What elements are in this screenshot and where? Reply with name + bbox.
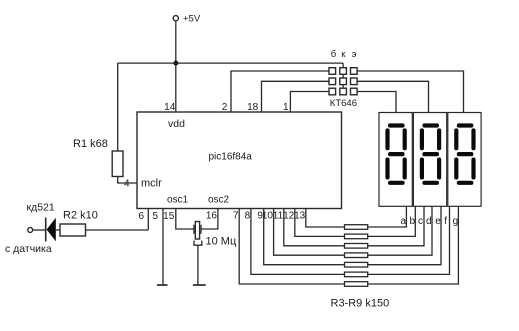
wire diode to R2 <box>56 229 60 231</box>
svg-text:КТ646: КТ646 <box>330 98 357 109</box>
wire terminal to diode <box>33 229 45 231</box>
svg-text:14: 14 <box>164 102 176 113</box>
svg-text:e: e <box>435 216 441 227</box>
svg-text:osc1: osc1 <box>167 195 189 206</box>
svg-text:10 Мц: 10 Мц <box>206 236 237 248</box>
resistor R3 <box>345 225 368 230</box>
resistor R6 <box>345 253 368 258</box>
transistor Q2 emitter pad <box>351 78 358 85</box>
display HG2 body <box>413 113 446 207</box>
transistor Q1 collector pad <box>340 68 347 75</box>
transistor Q3 base pad <box>329 88 336 95</box>
wire pin 13 to R3 <box>306 209 345 228</box>
wire pin 7 to R9 <box>239 209 344 285</box>
input terminal circle <box>28 228 33 233</box>
wire +5V horizontal rail <box>118 62 343 64</box>
resistor R9 <box>345 282 368 287</box>
wire +5V vertical to pin 14 <box>175 21 177 112</box>
transistor Q2 collector pad <box>340 78 347 85</box>
resistor R8 <box>345 272 368 277</box>
crystal ZQ1 body <box>195 222 199 240</box>
wire pin 5 to ground <box>162 209 164 286</box>
svg-text:pic16f84a: pic16f84a <box>209 152 253 163</box>
svg-text:18: 18 <box>247 102 259 113</box>
wire rail down to R1 <box>117 63 119 151</box>
crystal ZQ1 plate left <box>193 225 195 234</box>
svg-text:16: 16 <box>206 211 218 222</box>
wire pin 6 down <box>147 209 149 231</box>
ground pin 5 <box>157 284 168 286</box>
wire segment d to R6 <box>368 206 432 255</box>
svg-text:11: 11 <box>273 211 284 222</box>
svg-text:кд521: кд521 <box>27 202 55 214</box>
svg-text:d: d <box>426 216 432 227</box>
+5V terminal circle <box>173 16 178 21</box>
wire segment f to R8 <box>368 206 450 274</box>
svg-text:15: 15 <box>163 211 175 222</box>
transistor Q3 emitter pad <box>351 88 358 95</box>
wire Q2 emitter to display HG2 <box>357 81 428 112</box>
svg-text:R1 k68: R1 k68 <box>73 138 108 150</box>
wire Q2 collector to Q3 collector <box>342 85 344 89</box>
svg-text:с датчика: с датчика <box>5 243 52 255</box>
svg-text:12: 12 <box>283 211 295 222</box>
wire rail to Q1 collector <box>342 63 344 68</box>
resistor R1 <box>112 151 123 177</box>
diode VD1 triangle <box>47 218 56 241</box>
resistor R4 <box>345 234 368 239</box>
wire pin 12 to R4 <box>295 209 345 237</box>
wire pin 10 to R6 <box>274 209 345 256</box>
wire segment e to R7 <box>368 206 441 264</box>
display HG3 body <box>448 113 481 207</box>
ground crystal <box>193 284 206 286</box>
svg-text:g: g <box>453 216 459 227</box>
svg-text:+5V: +5V <box>183 14 201 25</box>
svg-text:vdd: vdd <box>168 118 185 130</box>
wire segment g to R9 <box>368 206 458 284</box>
svg-text:4: 4 <box>124 179 130 190</box>
svg-text:osc2: osc2 <box>208 195 230 206</box>
svg-text:1: 1 <box>283 102 289 113</box>
svg-text:10: 10 <box>262 211 274 222</box>
IC U1 pic16f84a body <box>137 112 342 209</box>
svg-text:13: 13 <box>294 211 306 222</box>
svg-text:R2 k10: R2 k10 <box>63 210 98 222</box>
wire segment a to R3 <box>368 206 406 227</box>
wire pin 18 to Q2 base <box>262 81 330 112</box>
wire crystal case to ground <box>197 245 199 285</box>
wire Q1 emitter to display HG3 <box>357 71 463 113</box>
wire pin 2 to Q1 base <box>231 71 329 112</box>
svg-text:к: к <box>341 49 346 60</box>
transistor Q2 base pad <box>329 78 336 85</box>
transistor Q1 emitter pad <box>351 68 358 75</box>
display HG1 body <box>379 113 412 207</box>
svg-text:a: a <box>401 216 407 227</box>
diode VD1 cathode bar <box>45 218 47 242</box>
svg-text:R3-R9 k150: R3-R9 k150 <box>331 298 390 310</box>
wire R1 bottom to mclr pin 4 <box>118 177 137 184</box>
display HG3 segments <box>454 123 475 184</box>
resistor R7 <box>345 262 368 267</box>
svg-text:b: b <box>410 216 416 227</box>
wire segment c to R5 <box>368 206 424 246</box>
transistor Q3 collector pad <box>340 88 347 95</box>
svg-text:c: c <box>418 216 423 227</box>
display HG1 segments <box>385 123 406 184</box>
svg-text:э: э <box>352 49 357 60</box>
svg-text:8: 8 <box>245 211 251 222</box>
wire pin 9 to R7 <box>264 209 345 265</box>
resistor R5 <box>345 244 368 249</box>
crystal ZQ1 plate right <box>200 225 202 234</box>
wire Q3 emitter to display HG1 <box>357 92 396 113</box>
wire pin 11 to R5 <box>284 209 345 246</box>
svg-text:7: 7 <box>233 211 239 222</box>
wire pin 15 to crystal <box>176 209 194 230</box>
wire pin 16 to crystal <box>201 209 218 230</box>
svg-text:f: f <box>444 216 447 227</box>
crystal case bracket <box>194 241 202 246</box>
transistor Q1 base pad <box>329 68 336 75</box>
wire R2 to pin 6 <box>86 229 149 231</box>
display HG2 segments <box>420 123 441 184</box>
svg-text:mclr: mclr <box>141 178 162 190</box>
svg-text:5: 5 <box>152 211 158 222</box>
svg-text:2: 2 <box>222 102 228 113</box>
wire segment b to R4 <box>368 206 415 236</box>
wire Q1 collector to Q2 collector <box>342 74 344 78</box>
wire pin 8 to R8 <box>251 209 345 275</box>
svg-text:б: б <box>331 49 337 60</box>
resistor R2 <box>60 224 86 236</box>
node junction on +5V rail <box>173 61 178 66</box>
wire pin 1 to Q3 base <box>290 92 329 113</box>
svg-text:6: 6 <box>138 211 144 222</box>
